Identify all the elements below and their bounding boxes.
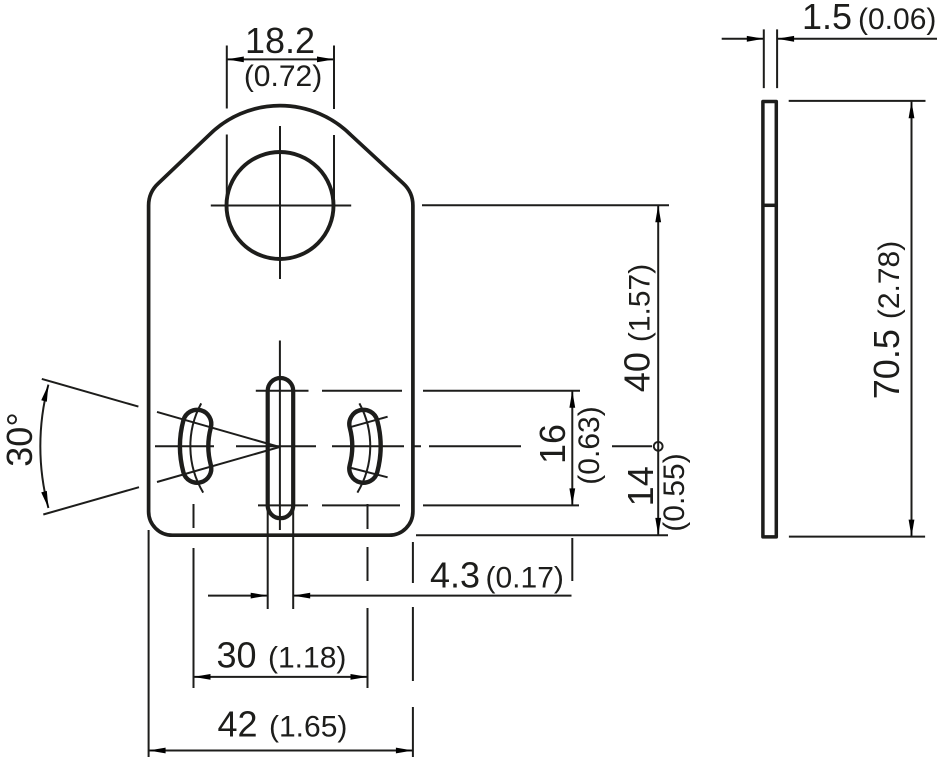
svg-text:(1.18): (1.18) — [268, 642, 346, 675]
30 deg arc arrow bottom — [41, 491, 51, 509]
horizontal centerline y=446.3 — [155, 445, 652, 447]
svg-text:16: 16 — [532, 424, 573, 464]
dim 30 extension lines — [194, 504, 368, 688]
30 deg dimension arc — [40, 385, 48, 508]
dim 40/14 bottom extension line — [416, 534, 668, 536]
dim 30 dimension line — [194, 676, 368, 678]
cone line A upper-left to vertex — [42, 379, 280, 447]
dim 70.5 extension lines — [789, 101, 926, 537]
dim 42 extension lines — [149, 530, 413, 757]
svg-text:4.3: 4.3 — [430, 555, 480, 596]
dim 1.5 dimension line — [722, 38, 937, 40]
dim 40/14 dimension line — [657, 205, 659, 535]
bracket outline (front view) — [149, 106, 413, 536]
svg-text:(0.17): (0.17) — [486, 562, 564, 595]
dim 42 dimension line — [149, 750, 413, 752]
svg-text:42: 42 — [218, 704, 258, 745]
svg-text:(0.63): (0.63) — [573, 406, 606, 484]
dim 4.3 extension lines — [268, 391, 294, 609]
central slot — [268, 378, 294, 518]
right banana cap tick bottom — [348, 467, 388, 477]
svg-text:14: 14 — [620, 466, 661, 506]
cone line B lower-left to vertex — [43, 447, 279, 515]
mounting hole circle — [227, 152, 334, 259]
svg-text:(1.65): (1.65) — [269, 711, 347, 744]
dim 40/14 top extension line at hole center — [422, 204, 669, 206]
hole centerline vertical — [279, 126, 281, 279]
dim 70.5 dimension line — [911, 101, 913, 536]
dim 18.2: extension lines — [227, 46, 334, 205]
left banana slot — [180, 410, 211, 483]
dim 1.5 extension lines — [764, 29, 777, 88]
dim 16 dimension line — [571, 391, 573, 506]
svg-text:(0.72): (0.72) — [244, 60, 322, 93]
svg-text:(0.55): (0.55) — [658, 453, 691, 531]
30 deg arc arrow top — [41, 384, 51, 402]
side view plate — [763, 102, 776, 537]
dim 16 tail below — [571, 538, 573, 581]
side view bend line — [762, 204, 777, 208]
svg-text:70.5 (2.78): 70.5 (2.78) — [866, 241, 907, 399]
slot vertical centerline — [279, 341, 281, 531]
svg-text:18.2: 18.2 — [245, 20, 315, 61]
dim 18.2: dimension line — [227, 58, 334, 60]
right banana mid-arc centerline — [357, 403, 370, 492]
slot top cap line y=390.7 — [256, 390, 580, 392]
svg-text:1.5: 1.5 — [802, 0, 852, 37]
svg-text:(0.06): (0.06) — [858, 3, 936, 36]
chain point circle marker — [654, 442, 663, 451]
slot bottom cap line y=505.4 — [258, 504, 579, 506]
left banana mid-arc centerline — [190, 403, 203, 492]
hole centerline horizontal — [211, 205, 351, 207]
svg-text:40 (1.57): 40 (1.57) — [617, 264, 658, 392]
right banana slot — [349, 410, 380, 483]
svg-text:30°: 30° — [0, 412, 40, 466]
right banana cap tick top — [348, 417, 387, 428]
svg-text:30: 30 — [217, 635, 257, 676]
dim 4.3 dimension line — [208, 595, 572, 597]
